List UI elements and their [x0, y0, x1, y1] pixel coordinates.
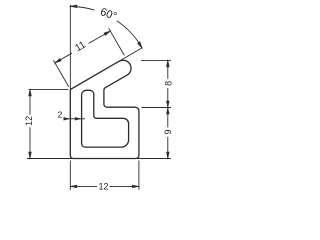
- profile outline (seal cross-section): [70, 60, 139, 158]
- left 12 dim line seg1: [29, 89, 31, 114]
- 8/9 dim line seg2: [167, 88, 169, 127]
- svg-text:2: 2: [58, 110, 63, 120]
- arrow left12 bottom: [28, 152, 31, 160]
- 2 dim line: [64, 118, 85, 120]
- arrow 9 top: [166, 106, 169, 114]
- arrowheads: [28, 5, 169, 189]
- arrow bottom12 left: [69, 185, 77, 188]
- arrow 2 right: [75, 117, 82, 120]
- arrow arc top: [69, 5, 77, 8]
- 8/9 mid extension: [142, 107, 172, 109]
- 60deg: vertical extension line: [69, 5, 71, 90]
- arrow bottom12 right: [132, 185, 140, 188]
- arrow arc bottom: [137, 41, 143, 49]
- arrow 9 bottom: [166, 152, 169, 160]
- 60deg arc segment right: [117, 21, 142, 48]
- 8 top extension: [141, 60, 171, 62]
- left 12: top extension: [29, 88, 68, 90]
- 11 dim line seg 2: [89, 31, 111, 44]
- 11 dim: extension line near tip: [109, 28, 125, 55]
- svg-text:12: 12: [24, 116, 34, 126]
- svg-text:8: 8: [163, 81, 173, 86]
- 60deg: angled edge extension to arc: [119, 48, 142, 62]
- arrow 2 left: [64, 117, 71, 120]
- dimension lines group: [27, 5, 171, 190]
- bottom long extension line: [27, 158, 171, 160]
- left 12 dim line seg2: [29, 127, 31, 158]
- arrow 8 top: [166, 59, 169, 67]
- svg-text:9: 9: [163, 129, 173, 134]
- svg-text:12: 12: [98, 181, 108, 191]
- 60deg arc segment left: [70, 6, 94, 10]
- arrow 11 right: [104, 30, 112, 36]
- arrow 8 bottom: [166, 101, 169, 109]
- 8/9 dim line seg1: [167, 60, 169, 79]
- 11 dim line seg 1: [55, 53, 72, 63]
- bottom 12: left extension: [69, 161, 71, 190]
- inner cutout (b-shaped hole): [82, 90, 129, 147]
- bottom 12 dim line seg2: [110, 185, 139, 187]
- arrow 11 left: [54, 58, 62, 64]
- 8/9 dim line seg3: [167, 137, 169, 159]
- bottom 12: right extension: [138, 161, 140, 190]
- 11 dim: extension line near vertex: [53, 60, 68, 87]
- bottom 12 dim line seg1: [70, 185, 97, 187]
- arrow left12 top: [28, 88, 31, 96]
